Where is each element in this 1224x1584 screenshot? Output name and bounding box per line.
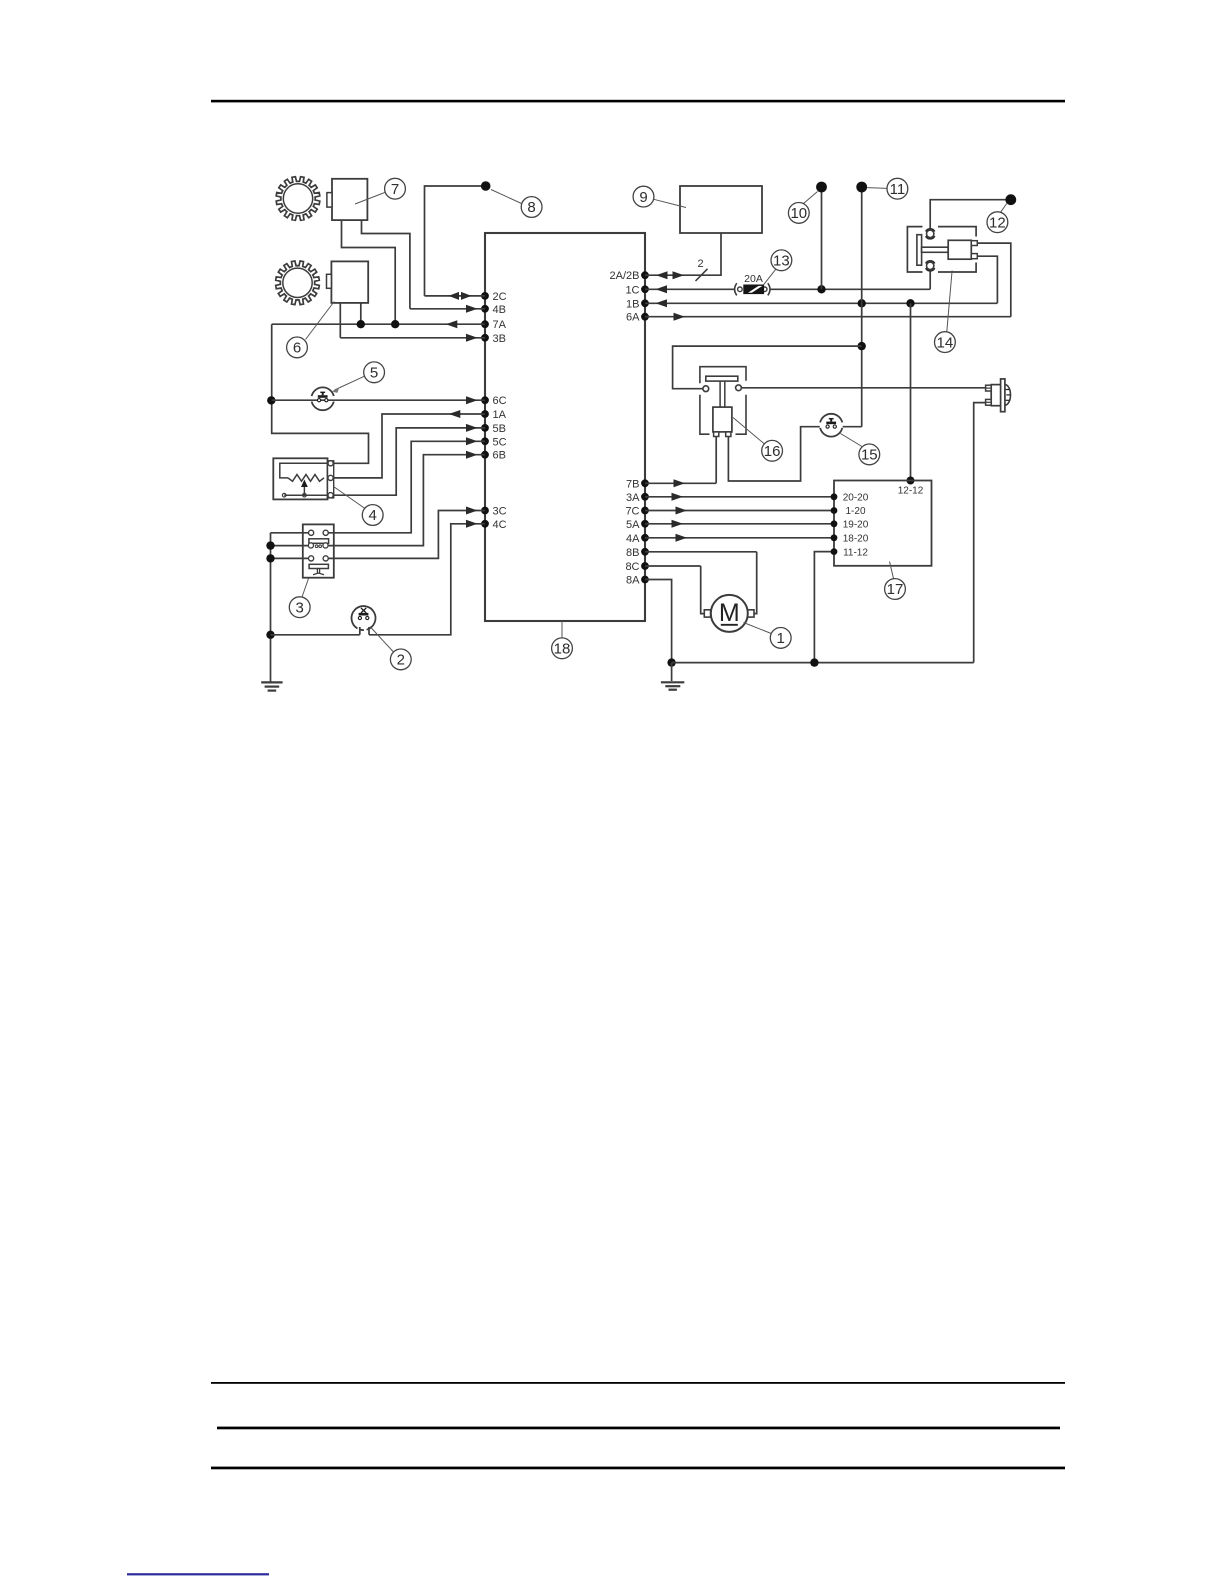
svg-text:8B: 8B — [626, 547, 639, 559]
svg-text:1C: 1C — [625, 284, 639, 296]
switch unit 3 box — [303, 524, 334, 577]
leader 18 — [561, 621, 563, 638]
sensor 7 — [332, 179, 367, 220]
TPS terminal 3 — [328, 493, 333, 498]
svg-text:3C: 3C — [493, 506, 507, 518]
leader 7 — [355, 192, 385, 204]
arrow on 6A — [674, 313, 686, 321]
pin 5A dot — [641, 520, 649, 528]
leader 13 — [764, 269, 777, 285]
wire 5A to 19-20 — [645, 523, 834, 525]
svg-text:6C: 6C — [493, 395, 507, 407]
bottom rule 2 — [217, 1427, 1060, 1430]
junction 1B/12-12 drop — [906, 299, 914, 307]
unit 17 box — [834, 481, 932, 566]
terminal 12 dot — [1005, 194, 1016, 205]
callout 17 — [885, 579, 906, 600]
ignition coil 16 internals — [706, 376, 738, 381]
pin 6B dot — [481, 451, 489, 459]
svg-text:14: 14 — [937, 334, 954, 351]
svg-text:1B: 1B — [626, 298, 639, 310]
relay 14 internals — [917, 235, 922, 266]
spark plug — [1005, 385, 1011, 406]
wire to sensor15 right — [843, 426, 862, 428]
wire 6C row — [272, 399, 485, 401]
wire ground row — [672, 662, 974, 664]
svg-text:5: 5 — [370, 365, 378, 382]
sensor 6 — [331, 261, 368, 303]
callout 6 — [287, 337, 308, 358]
wire from terminal 8 to 2C — [425, 186, 486, 296]
wire switch3 row1 to 5C — [328, 441, 485, 533]
pin 4B dot — [481, 305, 489, 313]
wire 8B row — [645, 551, 757, 553]
wire terminal 10 drop — [821, 187, 823, 289]
junction trunk row2 — [266, 541, 274, 549]
sensor 15 symbol — [820, 428, 842, 437]
svg-text:8C: 8C — [625, 561, 639, 573]
slash mark 2-wires — [696, 269, 708, 281]
coil terminal right — [736, 385, 742, 391]
svg-text:11-12: 11-12 — [843, 547, 868, 558]
pin 1A dot — [481, 410, 489, 418]
junction on 7A — [357, 320, 365, 328]
svg-text:18: 18 — [554, 641, 571, 658]
sensor 5 symbol — [312, 402, 334, 411]
leader 12 — [1001, 204, 1007, 213]
arrow on 6C — [466, 396, 478, 404]
svg-text:2A/2B: 2A/2B — [610, 270, 640, 282]
wire coil16 left terminal feed — [673, 346, 862, 389]
terminal 8 dot — [481, 181, 491, 191]
leader 16 — [733, 418, 765, 445]
arrow on 7C — [676, 507, 688, 515]
pin 2C dot — [481, 292, 489, 300]
leader 1 — [744, 623, 772, 634]
terminal 10 dot — [816, 182, 827, 193]
wire sensor6 left lead to 3B — [339, 303, 341, 338]
fuse 13 — [735, 283, 737, 295]
arrow left on 2C — [449, 292, 460, 300]
wire switch3 row2 left — [271, 545, 309, 547]
wire 1B to unit17 12-12 — [910, 303, 912, 480]
wire sensor7 right lead to 4B — [362, 220, 410, 309]
leader 2 — [370, 627, 394, 653]
svg-text:4A: 4A — [626, 533, 640, 545]
svg-text:8: 8 — [527, 199, 535, 216]
callout 15 — [859, 444, 880, 465]
svg-text:M: M — [719, 599, 740, 627]
relay 14 outline — [907, 227, 922, 272]
leader 9 — [654, 199, 686, 207]
svg-text:20-20: 20-20 — [843, 493, 869, 504]
wire 1B row — [645, 302, 997, 304]
TPS 4 internals — [280, 463, 331, 478]
svg-text:5B: 5B — [493, 423, 506, 435]
pulser gear bottom — [276, 261, 320, 305]
pin 7C dot — [641, 507, 649, 515]
svg-text:1A: 1A — [493, 409, 507, 421]
wire coil16 terminal2 to sensor15 — [728, 427, 819, 481]
wire switch3 row2 to 6B — [328, 455, 485, 546]
motor 1 — [704, 610, 710, 617]
svg-text:12-12: 12-12 — [898, 486, 924, 497]
svg-text:12: 12 — [989, 214, 1006, 231]
svg-text:4: 4 — [369, 507, 377, 524]
arrow on 7B — [674, 479, 686, 487]
pin 4A dot — [641, 534, 649, 542]
leader 4 — [334, 487, 366, 509]
wire 7B row — [645, 482, 716, 484]
svg-text:17: 17 — [887, 581, 904, 598]
top rule — [211, 100, 1065, 103]
relay terminal top — [927, 230, 934, 237]
svg-text:3B: 3B — [493, 333, 506, 345]
arrow on 3A — [672, 493, 684, 501]
wire 8B drop to motor — [754, 552, 757, 614]
svg-text:20A: 20A — [744, 273, 763, 285]
callout 16 — [762, 440, 783, 461]
wire ground row to spark plug shell — [974, 403, 991, 663]
ground right — [671, 663, 673, 681]
svg-text:8A: 8A — [626, 575, 640, 587]
wire 8C row — [645, 565, 701, 567]
pin 8A dot — [641, 576, 649, 584]
svg-text:6A: 6A — [626, 312, 640, 324]
arrow on 1C — [656, 285, 668, 293]
pin 5B dot — [481, 424, 489, 432]
junction ground row / 11-12 — [810, 658, 818, 666]
svg-text:4B: 4B — [493, 304, 506, 316]
TPS terminal 1 — [328, 461, 333, 466]
pin 3B dot — [481, 334, 489, 342]
svg-text:11: 11 — [890, 181, 906, 198]
junction 1C/terminal10 — [817, 285, 825, 293]
relay terminal bottom — [927, 262, 934, 269]
svg-text:6: 6 — [293, 340, 301, 357]
wire sensor7 left lead to 7A — [342, 220, 396, 324]
pin 12-12 dot — [907, 477, 915, 485]
unit17 pin 19-20 — [831, 520, 838, 527]
pin 1B dot — [641, 299, 649, 307]
svg-text:2: 2 — [697, 258, 703, 270]
svg-text:2: 2 — [397, 652, 405, 669]
wire bottom row left — [271, 634, 360, 636]
pin 3A dot — [641, 493, 649, 501]
arrow on 5A — [672, 520, 684, 528]
callout 4 — [362, 505, 383, 526]
pin 4C dot — [481, 520, 489, 528]
pin 1C dot — [641, 285, 649, 293]
wire switch3 row3 to 3C — [328, 511, 485, 559]
wire switch2 to 4C — [369, 524, 485, 635]
ignition coil 16 outline — [700, 367, 746, 384]
arrow on 7A — [446, 320, 458, 328]
wire 4B row — [410, 308, 485, 310]
pin 5C dot — [481, 437, 489, 445]
terminal 11 dot — [856, 182, 867, 193]
junction 1B/terminal11 drop — [858, 299, 866, 307]
junction on 7A right — [391, 320, 399, 328]
callout 13 — [771, 250, 792, 271]
svg-text:13: 13 — [773, 253, 790, 270]
arrow right on 2C — [461, 292, 472, 300]
arrow on 3C — [466, 507, 478, 515]
pulser gear top — [276, 177, 320, 221]
wire 1B to relay NC terminal — [977, 256, 997, 303]
wire 3B row — [340, 337, 485, 339]
callout 7 — [385, 178, 406, 199]
wire 3A to 20-20 — [645, 496, 834, 498]
arrow on 1B — [656, 299, 668, 307]
callout 11 — [887, 178, 908, 199]
pin 6A dot — [641, 313, 649, 321]
wire coil16 terminal1 drop — [715, 436, 717, 483]
unit17 pin 18-20 — [831, 534, 838, 541]
callout 1 — [770, 628, 791, 649]
wire switch3 row3 left — [271, 557, 309, 559]
bottom rule 3 — [211, 1467, 1065, 1470]
ground left — [261, 681, 282, 683]
module 9 — [680, 186, 762, 233]
svg-text:5C: 5C — [493, 436, 507, 448]
svg-text:15: 15 — [861, 447, 878, 464]
svg-text:9: 9 — [639, 189, 647, 206]
svg-text:2C: 2C — [493, 291, 507, 303]
TPS 4 box — [273, 458, 327, 499]
junction trunk bottom row — [266, 631, 274, 639]
callout 8 — [521, 197, 542, 218]
callout 10 — [788, 203, 809, 224]
junction ground row left — [667, 658, 675, 666]
leader 6 — [306, 302, 335, 340]
arrow on 4C — [466, 520, 478, 528]
pin 7A dot — [481, 320, 489, 328]
arrow on 4A — [676, 534, 688, 542]
callout 18 — [552, 638, 573, 659]
arrow right on 2A/2B — [673, 271, 685, 279]
wire switch2 left lead — [359, 627, 361, 635]
wire switch3 row1 left — [271, 532, 309, 534]
wire relay coil top to terminal 12 — [930, 200, 1005, 230]
wire 2C row — [425, 295, 486, 297]
wire module9 to 2A/2B — [645, 233, 721, 275]
pin 2A/2B dot — [641, 271, 649, 279]
unit17 pin 20-20 — [831, 493, 838, 500]
callout 14 — [935, 332, 956, 353]
pin 6C dot — [481, 396, 489, 404]
svg-text:1-20: 1-20 — [845, 506, 865, 517]
wire 8C drop to motor — [701, 566, 705, 614]
svg-text:3A: 3A — [626, 492, 640, 504]
svg-text:3: 3 — [296, 599, 304, 616]
arrow on 5C — [466, 437, 478, 445]
leader 14 — [947, 271, 952, 332]
wire sensor6 right lead to 7A — [360, 303, 362, 324]
unit17 pin 11-12 — [831, 548, 838, 555]
wire 4A to 18-20 — [645, 537, 834, 539]
wire 1C row left of fuse — [645, 288, 735, 290]
leader 3 — [302, 579, 309, 598]
svg-text:7: 7 — [391, 181, 399, 198]
wire TPS bottom terminal to 5B — [334, 428, 485, 495]
callout 12 — [987, 212, 1008, 233]
leader 8 — [491, 190, 522, 204]
arrow on 1A — [449, 410, 461, 418]
ECU box U18 — [485, 233, 645, 621]
svg-text:4C: 4C — [493, 519, 507, 531]
switch unit 3 internals — [309, 530, 314, 535]
junction coil feed row — [858, 342, 866, 350]
leader 17 — [890, 562, 894, 579]
leader 11 — [867, 187, 887, 190]
arrow left on 2A/2B — [656, 271, 668, 279]
footer link line — [127, 1573, 269, 1575]
junction trunk row3 — [266, 554, 274, 562]
wire terminal 11 drop — [861, 187, 863, 427]
svg-text:10: 10 — [790, 205, 807, 222]
leader 10 — [804, 192, 818, 204]
svg-text:7A: 7A — [493, 319, 507, 331]
wire coil16 HT to spark plug — [741, 387, 985, 389]
svg-text:1: 1 — [777, 630, 785, 647]
pin 7B dot — [641, 479, 649, 487]
pin 3C dot — [481, 507, 489, 515]
junction trunk/6C — [267, 396, 275, 404]
pin 8B dot — [641, 548, 649, 556]
wire 7A row — [272, 323, 485, 325]
svg-text:18-20: 18-20 — [843, 534, 869, 545]
arrow on 4B — [466, 305, 478, 313]
TPS terminal 2 — [328, 475, 333, 480]
wire trunk lower to ground — [270, 533, 272, 682]
callout 2 — [390, 649, 411, 670]
bottom rule thin — [211, 1382, 1065, 1384]
wire switch2 right lead — [368, 627, 370, 635]
arrow on 3B — [466, 334, 478, 342]
wire relay coil bottom to 1C — [929, 270, 931, 290]
wire TPS mid terminal to 1A — [334, 414, 485, 478]
callout 5 — [364, 362, 385, 383]
wire trunk upper to TPS top terminal — [272, 324, 369, 463]
coil terminal left — [703, 386, 709, 392]
callout 9 — [633, 186, 654, 207]
arrow on 5B — [466, 424, 478, 432]
unit17 pin 1-20 — [831, 507, 838, 514]
wire 11-12 to ground row — [814, 552, 834, 663]
wire 7C to 1-20 — [645, 510, 834, 512]
pin 8C dot — [641, 562, 649, 570]
svg-text:19-20: 19-20 — [843, 520, 869, 531]
svg-text:5A: 5A — [626, 519, 640, 531]
svg-text:7B: 7B — [626, 478, 639, 490]
leader 5 — [335, 376, 365, 390]
wire 1C row right of fuse — [770, 288, 930, 290]
callout 3 — [289, 597, 310, 618]
sensor 2 symbol — [352, 606, 376, 630]
svg-text:6B: 6B — [493, 450, 506, 462]
wire 8A to ground — [645, 580, 672, 663]
svg-text:7C: 7C — [625, 506, 639, 518]
wire 6A row — [645, 316, 1011, 318]
leader 15 — [841, 434, 863, 447]
wire 6A to relay NO terminal — [977, 243, 1011, 317]
svg-text:16: 16 — [764, 443, 781, 460]
arrow on 6B — [466, 451, 478, 459]
